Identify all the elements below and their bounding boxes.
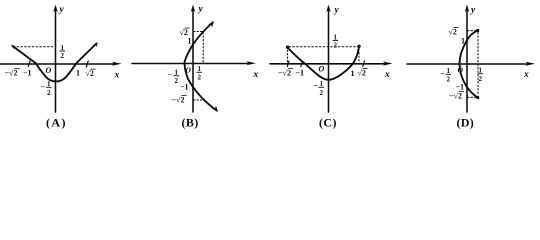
panel C tick sqrt2 xyxy=(363,61,365,67)
panel D x-axis arrowhead xyxy=(526,62,536,66)
panel A curve left arrowhead xyxy=(11,45,17,50)
svg-text:−: − xyxy=(313,81,318,90)
svg-text:y: y xyxy=(198,5,204,15)
svg-text:1: 1 xyxy=(351,69,355,78)
panel C tick -1 xyxy=(301,61,303,67)
svg-text:2: 2 xyxy=(47,89,51,97)
svg-text:1: 1 xyxy=(198,65,202,73)
panel C x-axis xyxy=(270,63,385,65)
svg-text:(B): (B) xyxy=(182,116,199,130)
svg-text:−√2: −√2 xyxy=(278,69,291,78)
panel C curve xyxy=(288,47,359,80)
panel A tick -sqrt2 xyxy=(28,61,30,67)
svg-text:−1: −1 xyxy=(456,82,465,91)
svg-text:x: x xyxy=(114,71,120,81)
panel A tick sqrt2 xyxy=(86,61,88,67)
svg-text:1: 1 xyxy=(479,67,483,75)
panel C tick -sqrt2 xyxy=(287,61,289,67)
panel D y-axis arrowhead xyxy=(465,5,469,13)
panel C y-axis xyxy=(328,10,330,112)
panel D curve xyxy=(460,31,478,98)
panel D dotted vertical at 1/2 xyxy=(477,33,479,96)
svg-text:2: 2 xyxy=(320,89,324,97)
panel C y-axis arrowhead xyxy=(326,5,330,13)
svg-text:2: 2 xyxy=(61,52,65,60)
panel A x-axis xyxy=(1,63,115,65)
svg-text:1: 1 xyxy=(461,37,465,46)
panel A curve right arrowhead xyxy=(93,42,98,47)
panel D endpoint dot top xyxy=(476,29,479,32)
panel C endpoint dot right xyxy=(357,45,360,48)
panel B dotted vertical at 1/2 xyxy=(202,33,204,64)
panel D dotted horizontal at sqrt2 xyxy=(468,30,477,32)
panel B curve upper arrowhead xyxy=(208,21,215,28)
panel A x-axis arrowhead xyxy=(112,62,122,66)
panel C endpoint dot left xyxy=(286,46,289,49)
panel B curve upper branch xyxy=(185,23,213,64)
svg-text:y: y xyxy=(334,6,340,16)
svg-text:−√2: −√2 xyxy=(5,69,18,78)
svg-text:1: 1 xyxy=(447,67,451,75)
svg-text:2: 2 xyxy=(198,74,202,82)
svg-text:(A): (A) xyxy=(46,116,67,130)
panel B dotted horizontal at sqrt2 xyxy=(194,31,203,33)
panel D endpoint dot bottom xyxy=(476,96,479,99)
panel B y-axis arrowhead xyxy=(191,5,195,13)
svg-text:1: 1 xyxy=(334,33,338,41)
panel D x-axis xyxy=(407,63,527,65)
panel B curve lower arrowhead xyxy=(212,106,219,113)
svg-text:√2: √2 xyxy=(449,28,457,37)
panel B curve lower branch xyxy=(185,64,217,111)
svg-text:−: − xyxy=(440,69,445,78)
panel B x-axis arrowhead xyxy=(247,61,257,65)
svg-text:2: 2 xyxy=(334,42,338,50)
svg-text:−√2: −√2 xyxy=(172,96,185,105)
svg-text:2: 2 xyxy=(479,75,483,83)
panel B dotted horizontal at -sqrt2 xyxy=(194,99,204,101)
svg-text:O: O xyxy=(319,65,325,74)
panel A y-axis arrowhead xyxy=(53,5,57,13)
panel B x-axis xyxy=(132,63,248,65)
svg-text:y: y xyxy=(59,5,65,15)
panel C x-axis arrowhead xyxy=(383,61,393,65)
svg-text:−: − xyxy=(41,83,46,92)
panel C dotted line y=1/2 xyxy=(289,46,358,48)
panel D dotted horizontal at -sqrt2 xyxy=(468,96,477,98)
panel A dotted line y=1/2 xyxy=(17,46,55,48)
svg-text:2: 2 xyxy=(447,76,451,84)
svg-text:y: y xyxy=(470,6,476,16)
svg-text:1: 1 xyxy=(47,80,51,88)
svg-text:√2: √2 xyxy=(86,69,94,78)
svg-text:O: O xyxy=(186,66,192,75)
panel D y-axis xyxy=(466,10,468,112)
svg-text:O: O xyxy=(46,66,52,75)
svg-text:1: 1 xyxy=(175,69,179,77)
svg-text:x: x xyxy=(523,70,529,80)
svg-text:O: O xyxy=(458,66,464,75)
panel A y-axis xyxy=(55,10,57,112)
panel B y-axis xyxy=(192,10,194,112)
svg-text:1: 1 xyxy=(188,37,192,46)
svg-text:√2: √2 xyxy=(358,69,366,78)
svg-text:−1: −1 xyxy=(23,69,32,78)
svg-text:−1: −1 xyxy=(180,83,189,92)
panel A curve xyxy=(13,44,97,82)
svg-text:(D): (D) xyxy=(457,116,475,130)
svg-text:(C): (C) xyxy=(319,116,337,130)
svg-text:x: x xyxy=(253,70,259,80)
svg-text:−1: −1 xyxy=(296,69,305,78)
svg-text:1: 1 xyxy=(76,69,80,78)
svg-text:−: − xyxy=(168,71,173,80)
svg-text:2: 2 xyxy=(175,77,179,85)
svg-text:−√2: −√2 xyxy=(449,92,462,101)
panel C dotted vertical left xyxy=(287,50,289,63)
svg-text:1: 1 xyxy=(320,80,324,88)
panel C dotted vertical right xyxy=(358,49,360,63)
svg-text:x: x xyxy=(384,70,390,80)
